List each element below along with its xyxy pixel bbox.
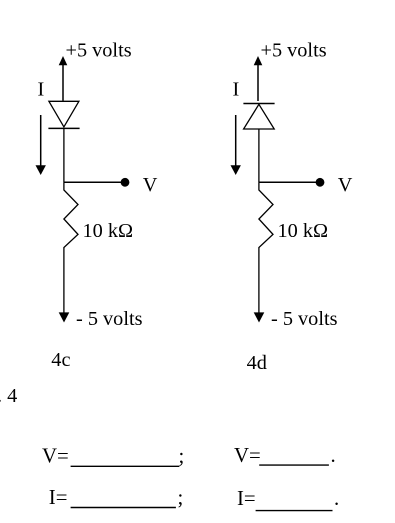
svg-text:I: I	[38, 78, 45, 100]
svg-text:+5 volts: +5 volts	[66, 40, 132, 62]
svg-text:4c: 4c	[51, 349, 70, 371]
svg-text:4d: 4d	[247, 352, 267, 374]
arrowhead down at -5 supply (4c)	[59, 312, 70, 322]
current arrowhead down (4d)	[231, 165, 241, 175]
arrowhead up at +5 supply (4c)	[59, 56, 68, 65]
diode D1 cathode bar (4c)	[48, 127, 79, 129]
svg-text:I=: I=	[237, 487, 256, 510]
svg-text:V: V	[338, 174, 353, 196]
node V dot (4c)	[121, 178, 130, 187]
svg-text:;: ;	[179, 445, 185, 468]
svg-text:V=: V=	[42, 445, 69, 468]
svg-text:I: I	[233, 78, 240, 100]
answer blank line V (4d)	[259, 464, 329, 466]
arrowhead down at -5 supply (4d)	[254, 312, 265, 322]
wire: supply arrow to +5 volts (4c)	[62, 64, 64, 101]
wire: diode to node V junction (4c)	[63, 128, 65, 182]
current arrow I line (4c)	[40, 115, 42, 166]
svg-text:V=: V=	[234, 444, 261, 467]
svg-text:;: ;	[178, 486, 184, 509]
svg-text:.: .	[331, 444, 336, 467]
svg-text:.: .	[334, 487, 339, 510]
svg-text:10 kΩ: 10 kΩ	[83, 220, 134, 242]
current arrowhead down (4c)	[36, 165, 46, 175]
svg-text:. 4: . 4	[0, 385, 17, 407]
diode D2 anode triangle (4d, pointing up)	[244, 104, 275, 129]
resistor R2 zigzag 10k (4d)	[259, 182, 273, 312]
svg-text:+5 volts: +5 volts	[261, 40, 327, 62]
svg-text:- 5 volts: - 5 volts	[76, 308, 143, 330]
answer blank line I (4d)	[256, 510, 333, 512]
current arrow I line (4d)	[235, 115, 237, 166]
svg-text:I=: I=	[49, 486, 68, 509]
diode D1 anode triangle (4c, pointing down)	[49, 101, 79, 127]
svg-text:10 kΩ: 10 kΩ	[278, 220, 329, 242]
answer blank line V (4c)	[71, 465, 180, 467]
wire: junction to node dot (4d)	[259, 181, 320, 183]
svg-text:V: V	[143, 174, 158, 196]
svg-text:- 5 volts: - 5 volts	[271, 308, 338, 330]
diode D2 cathode bar (4d)	[243, 103, 274, 105]
answer blank line I (4c)	[71, 507, 176, 509]
wire: diode to node V junction (4d)	[258, 129, 260, 182]
wire: supply arrow to +5 volts (4d)	[257, 64, 259, 101]
wire: junction to node dot (4c)	[64, 181, 125, 183]
resistor R1 zigzag 10k (4c)	[64, 182, 78, 312]
node V dot (4d)	[316, 178, 325, 187]
arrowhead up at +5 supply (4d)	[254, 56, 263, 65]
